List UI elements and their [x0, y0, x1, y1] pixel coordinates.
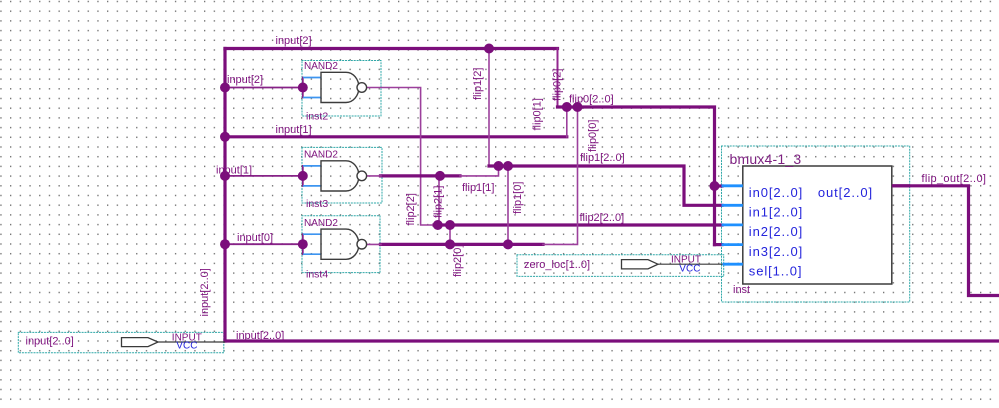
junction node flip1[2] tap [484, 44, 494, 54]
wire input[2..0] bottom bus [225, 339, 999, 342]
svg-text:flip1[0]: flip1[0] [512, 182, 524, 214]
svg-text:VCC: VCC [176, 341, 197, 352]
svg-text:sel[1..0]: sel[1..0] [749, 263, 803, 278]
wire flip2[2..0] bus [434, 223, 722, 226]
wire flip2[1] vertical [438, 176, 440, 225]
wire flip_out[2..0] bus [892, 186, 999, 296]
junction node flip0[1] join [562, 102, 572, 112]
wire flip0 into in3 [715, 243, 723, 246]
junction node riser-input[1] [220, 171, 230, 181]
wire inst3 output bold [381, 174, 461, 177]
svg-text:input[2..0]: input[2..0] [199, 268, 211, 316]
svg-text:inst3: inst3 [306, 198, 328, 210]
svg-text:VCC: VCC [679, 263, 700, 274]
wire flip0[2] vertical [557, 49, 559, 108]
svg-text:flip0[0]: flip0[0] [587, 120, 599, 152]
selection box inst2 [302, 61, 381, 117]
pin line input symbol [158, 341, 225, 343]
svg-text:flip0[1]: flip0[1] [532, 98, 544, 130]
junction node inst4out-flip2[0] [445, 239, 455, 249]
svg-text:flip_out[2..0]: flip_out[2..0] [922, 173, 987, 185]
selection box inst3 [302, 147, 382, 203]
wire flip2[0] vertical [449, 225, 451, 244]
wire branch input[2] to inst2 [225, 87, 303, 89]
svg-text:flip1[1]: flip1[1] [462, 182, 494, 194]
svg-text:flip1[2..0]: flip1[2..0] [580, 152, 625, 164]
svg-text:zero_loc[1..0]: zero_loc[1..0] [524, 259, 590, 271]
wire input[2] top bus [225, 47, 558, 50]
svg-text:flip2[1]: flip2[1] [433, 186, 445, 218]
selection box zero_loc pin [517, 255, 724, 277]
NAND2 gate inst2 [303, 72, 367, 102]
junction node inst4 input [298, 239, 308, 249]
svg-text:input[2]: input[2] [276, 35, 312, 47]
svg-text:NAND2: NAND2 [304, 150, 338, 161]
selection box inst4 [302, 216, 380, 273]
wire branch input[0] to inst4 [225, 243, 303, 245]
wire flip0[0] thin [543, 107, 578, 244]
zero_loc pin symbol [622, 254, 702, 274]
junction node riser-input[0] [220, 239, 230, 249]
NAND2 gate inst3 [303, 161, 367, 191]
junction node riser-input[2] [220, 83, 230, 93]
junction node inst4out-flip1[0] [503, 239, 513, 249]
svg-text:bmux4-1_3: bmux4-1_3 [730, 151, 802, 167]
junction node flip2[1] join [433, 220, 443, 230]
svg-text:flip2[0]: flip2[0] [452, 245, 464, 277]
svg-text:in3[2..0]: in3[2..0] [749, 244, 803, 259]
svg-text:input[2]: input[2] [227, 74, 263, 86]
wire inst2 output flip2[2] [367, 88, 436, 226]
junction node flip2[0] join [445, 220, 455, 230]
wire inst2 input connector [302, 78, 304, 98]
pin line zero_loc symbol [658, 263, 723, 265]
junction node flip0-in0 [710, 181, 720, 191]
svg-text:input[1]: input[1] [216, 165, 252, 177]
wire inst4 input connector [302, 234, 304, 254]
svg-text:inst: inst [733, 284, 750, 296]
wire input[2..0] riser [223, 49, 226, 342]
wire flip1[2] vertical [488, 49, 490, 167]
svg-text:flip2[2..0]: flip2[2..0] [580, 212, 625, 224]
svg-text:NAND2: NAND2 [304, 61, 338, 72]
svg-text:in0[2..0]: in0[2..0] [749, 185, 803, 200]
selection box input pin [18, 332, 224, 352]
wire inst4 output stub [367, 243, 382, 245]
wire flip0[2..0] bus [558, 107, 723, 245]
junction node inst3out-flip2[1] [435, 171, 445, 181]
svg-text:in2[2..0]: in2[2..0] [749, 224, 803, 239]
wire inst3 input connector [302, 166, 304, 186]
svg-text:inst2: inst2 [306, 110, 328, 122]
svg-text:NAND2: NAND2 [304, 218, 338, 229]
svg-text:flip1[2]: flip1[2] [472, 68, 484, 100]
selection box bmux U1 [722, 146, 910, 302]
svg-text:flip0[2..0]: flip0[2..0] [569, 93, 614, 105]
junction node flip1[0] join [503, 161, 513, 171]
svg-text:input[2..0]: input[2..0] [26, 336, 74, 348]
wire input[1] bus [225, 135, 567, 138]
wire inst4 output bold [381, 243, 544, 246]
svg-text:in1[2..0]: in1[2..0] [749, 205, 803, 220]
junction node inst2 input [298, 83, 308, 93]
wire flip1[2..0] bus [489, 166, 722, 205]
svg-text:flip2[2]: flip2[2] [405, 193, 417, 225]
wire branch input[1] to inst3 [225, 175, 303, 177]
NAND2 gate inst4 [303, 229, 367, 259]
svg-text:flip0[2]: flip0[2] [552, 69, 564, 101]
wire flip1[1] thin [460, 166, 499, 176]
junction node flip0[0] join [573, 102, 583, 112]
junction node riser-input[1]bus [220, 132, 230, 142]
bmux4-1_3 block U1 [722, 166, 911, 284]
svg-text:input[1]: input[1] [276, 124, 312, 136]
wire flip1[0] vertical [507, 166, 509, 244]
svg-text:input[0]: input[0] [237, 232, 273, 244]
svg-text:input[2..0]: input[2..0] [236, 330, 284, 342]
junction node inst3 input [298, 171, 308, 181]
svg-text:out[2..0]: out[2..0] [818, 185, 873, 200]
svg-text:inst4: inst4 [306, 268, 328, 280]
junction node flip1[1] join [494, 161, 504, 171]
wire flip0[1] vertical [566, 107, 568, 137]
input pin symbol [122, 332, 202, 351]
wire inst3 output stub [367, 175, 382, 177]
